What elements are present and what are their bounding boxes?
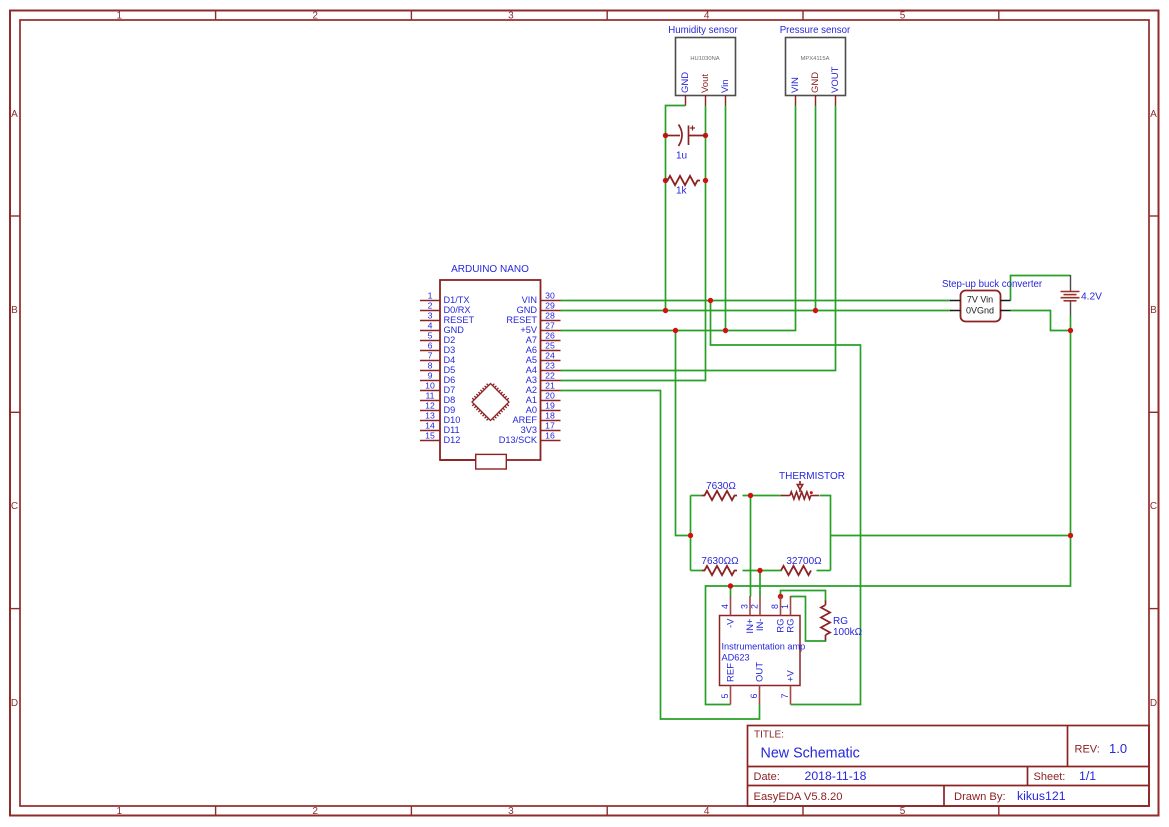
wire: buck 0V output to battery negative junction [1011,311,1071,331]
wire: RG resistor bottom to amp RG pin1 [791,597,826,642]
svg-text:Vout: Vout [700,74,711,93]
resistor 1k [665,176,700,197]
svg-text:B: B [11,305,18,316]
resistor RG 100kΩ [821,601,863,641]
svg-text:REF: REF [726,663,737,682]
svg-text:VOUT: VOUT [830,66,841,93]
svg-text:A6: A6 [526,345,537,355]
resistor 32700Ω (bridge bottom-right) [781,556,822,575]
svg-text:1: 1 [780,604,790,609]
svg-text:+5V: +5V [520,325,537,335]
junction: bridge bottom middle node [757,568,762,573]
wire: battery negative stub to junction [1070,316,1072,331]
svg-text:D10: D10 [444,415,461,425]
svg-text:HU1030NA: HU1030NA [690,56,719,62]
junction: Vout net at capacitor right [703,133,708,138]
wire: VIN net branch to amp +V pin7 [711,301,861,705]
svg-text:kikus121: kikus121 [1017,789,1066,803]
svg-text:22: 22 [545,370,555,380]
svg-text:RG: RG [833,616,848,627]
svg-text:D11: D11 [444,425,460,435]
svg-text:AREF: AREF [512,415,537,425]
junction: ground net at bridge tap [1068,533,1073,538]
svg-text:7: 7 [428,350,433,360]
wire: thermistor to bridge right rail [820,496,831,571]
wire: buck 7V output up to battery positive [1011,276,1071,301]
svg-text:19: 19 [545,400,555,410]
wire: amp RG pin8 to RG resistor top [781,591,826,602]
svg-text:+V: +V [786,669,797,682]
svg-text:GND: GND [810,72,821,93]
svg-text:4: 4 [720,604,730,609]
svg-text:2: 2 [750,604,760,609]
svg-text:A0: A0 [526,405,537,415]
svg-text:1.0: 1.0 [1109,741,1127,756]
svg-text:4: 4 [704,11,710,22]
svg-text:IN-: IN- [755,619,766,632]
svg-text:D7: D7 [444,385,456,395]
svg-text:Sheet:: Sheet: [1034,771,1066,783]
svg-text:4: 4 [428,320,433,330]
svg-text:5: 5 [900,806,906,817]
junction: ground net at amp -V branch [728,583,733,588]
svg-text:Drawn By:: Drawn By: [954,791,1006,803]
svg-text:2018-11-18: 2018-11-18 [805,769,867,783]
svg-text:Instrumentation amp: Instrumentation amp [722,642,806,652]
svg-text:RESET: RESET [506,315,537,325]
wire: A2 net Arduino pin21 to amp OUT pin6 [561,391,760,720]
svg-text:4.2V: 4.2V [1081,292,1102,303]
svg-text:D1/TX: D1/TX [444,295,470,305]
svg-text:D3: D3 [444,345,456,355]
wire: ground net branch to amp -V pin4 [730,586,732,597]
wire: bridge left rail [690,496,692,571]
wire: +5V net Arduino pin27 to pressure sensor VIN [561,106,796,331]
svg-text:2: 2 [312,806,318,817]
junction: GND net at resistor 1k left [663,178,668,183]
svg-text:0VGnd: 0VGnd [966,306,994,316]
svg-text:D9: D9 [444,405,456,415]
wire: humidity GND pin down to GND net [666,106,686,311]
arduino nano module [420,264,561,469]
svg-text:15: 15 [425,430,435,440]
svg-text:7: 7 [780,694,790,699]
svg-text:C: C [11,501,18,512]
wire: R 32700 to right rail [817,570,831,572]
svg-text:A7: A7 [526,335,537,345]
svg-text:D13/SCK: D13/SCK [499,435,538,445]
svg-text:23: 23 [545,360,555,370]
wire: A3 net Arduino pin22 to humidity sensor Vout [561,106,706,381]
svg-text:A: A [1150,109,1157,120]
svg-text:New Schematic: New Schematic [761,746,860,762]
humidity sensor HU1030NA [668,25,738,106]
svg-text:3: 3 [428,310,433,320]
svg-text:D: D [1150,698,1157,709]
svg-text:RG: RG [786,619,797,633]
svg-text:32700Ω: 32700Ω [786,556,822,567]
wire: bridge bottom mid to amp IN- pin2 [759,571,761,597]
svg-text:5: 5 [900,11,906,22]
svg-text:1u: 1u [676,151,687,162]
svg-text:26: 26 [545,330,555,340]
wire: bridge right rail to ground net [831,535,1071,537]
resistor 7630Ω (bridge top-left) [702,481,737,500]
junction: +5V branch to bridge [673,328,678,333]
junction: humidity Vin on +5V net [723,328,728,333]
svg-text:Vin: Vin [720,79,731,93]
svg-text:MPX4115A: MPX4115A [801,56,830,62]
svg-text:1: 1 [117,806,123,817]
svg-text:3: 3 [740,604,750,609]
wire: left rail to R 7630QQ [691,570,703,572]
step-up buck converter module [942,279,1043,322]
svg-text:3: 3 [508,11,514,22]
svg-text:20: 20 [545,390,555,400]
svg-text:29: 29 [545,300,555,310]
svg-text:100kΩ: 100kΩ [833,627,863,638]
svg-text:2: 2 [312,11,318,22]
wire: pressure GND pin down to GND net [815,106,817,311]
battery 4.2V [1061,275,1103,316]
wire: VIN net Arduino pin30 to buck converter 7V Vin [561,300,951,302]
junction: GND net at capacitor left [663,133,668,138]
svg-text:GND: GND [517,305,538,315]
svg-text:OUT: OUT [755,662,766,682]
svg-text:4: 4 [704,806,710,817]
svg-text:6: 6 [749,694,759,699]
wire: +5V branch down to bridge left rail [676,331,691,536]
svg-text:25: 25 [545,340,555,350]
svg-text:VIN: VIN [790,77,801,93]
svg-text:Pressure sensor: Pressure sensor [780,25,851,36]
wire: A4 net Arduino pin23 to pressure sensor VOUT [561,106,836,371]
svg-text:10: 10 [425,380,435,390]
svg-text:A: A [11,109,18,120]
svg-text:27: 27 [545,320,555,330]
wire: R 7630QQ to R 32700 [743,570,782,572]
svg-text:A1: A1 [526,395,537,405]
pressure sensor MPX4115A [780,25,851,106]
svg-text:8: 8 [770,604,780,609]
svg-text:6: 6 [428,340,433,350]
wire: R 7630 to thermistor [743,495,782,497]
svg-text:THERMISTOR: THERMISTOR [779,471,845,482]
title block [748,726,1150,807]
svg-text:A5: A5 [526,355,537,365]
svg-text:Date:: Date: [754,771,780,783]
op-amp U1 instrumentation amp AD623 [720,596,806,705]
svg-text:D5: D5 [444,365,456,375]
junction: bridge top middle node [748,493,753,498]
svg-text:9: 9 [428,370,433,380]
svg-text:GND: GND [680,72,691,93]
wire: humidity Vin pin down to +5V net [725,106,727,331]
svg-text:5: 5 [720,694,730,699]
svg-text:1k: 1k [676,186,688,197]
svg-text:A3: A3 [526,375,537,385]
svg-text:TITLE:: TITLE: [754,730,784,741]
svg-text:ARDUINO NANO: ARDUINO NANO [451,264,529,275]
svg-text:REV:: REV: [1075,744,1100,756]
junction: Vout net at resistor 1k right [703,178,708,183]
svg-text:D0/RX: D0/RX [444,305,471,315]
svg-text:D2: D2 [444,335,456,345]
svg-text:Humidity sensor: Humidity sensor [668,25,738,36]
svg-text:18: 18 [545,410,555,420]
svg-text:8: 8 [428,360,433,370]
svg-text:D: D [11,698,18,709]
svg-text:D6: D6 [444,375,456,385]
junction: humidity GND on GND net [663,308,668,313]
svg-text:1/1: 1/1 [1079,769,1096,783]
svg-text:30: 30 [545,290,555,300]
svg-text:-V: -V [726,618,737,628]
svg-text:21: 21 [545,380,555,390]
svg-text:1: 1 [428,290,433,300]
svg-text:VIN: VIN [522,295,537,305]
wire: bridge left rail to R 7630 top [691,495,703,497]
junction: bridge left rail feed [688,533,693,538]
wire: GND net Arduino pin29 to buck converter 0VGnd [561,310,951,312]
svg-text:D12: D12 [444,435,461,445]
svg-text:17: 17 [545,420,555,430]
junction: amp RG pin8 node [778,594,783,599]
junction: VIN net branch [708,298,713,303]
svg-text:C: C [1150,501,1157,512]
svg-text:B: B [1150,305,1157,316]
svg-text:D8: D8 [444,395,456,405]
svg-text:7V Vin: 7V Vin [967,295,993,305]
svg-text:RESET: RESET [444,315,475,325]
svg-text:D4: D4 [444,355,456,365]
svg-text:12: 12 [425,400,435,410]
svg-text:A4: A4 [526,365,537,375]
svg-text:24: 24 [545,350,555,360]
svg-text:3V3: 3V3 [521,425,537,435]
resistor 7630ΩΩ (bridge bottom-left) [701,556,739,575]
wire: ground net battery to amp REF pin5 [706,331,1071,705]
svg-text:11: 11 [425,390,434,400]
junction: battery negative node [1068,328,1073,333]
capacitor 1u (polarized) [665,125,706,162]
wire: bridge top mid to amp IN+ pin3 [750,496,752,597]
svg-text:16: 16 [545,430,555,440]
svg-text:1: 1 [117,11,123,22]
svg-text:13: 13 [425,410,435,420]
svg-text:EasyEDA V5.8.20: EasyEDA V5.8.20 [754,791,843,803]
svg-text:GND: GND [444,325,465,335]
svg-text:3: 3 [508,806,514,817]
junction: pressure GND on GND net [813,308,818,313]
svg-text:7630Ω: 7630Ω [706,481,736,492]
svg-text:Step-up buck converter: Step-up buck converter [942,279,1043,290]
svg-text:AD623: AD623 [722,653,750,663]
svg-text:A2: A2 [526,385,537,395]
svg-text:28: 28 [545,310,555,320]
svg-text:2: 2 [428,300,433,310]
thermistor [779,471,845,499]
svg-text:5: 5 [428,330,433,340]
svg-text:14: 14 [425,420,435,430]
